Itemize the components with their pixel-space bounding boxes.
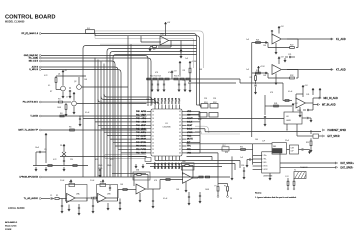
svg-text:LOCAL AUDIO: LOCAL AUDIO xyxy=(8,207,25,210)
svg-text:Notes:: Notes: xyxy=(255,192,262,195)
svg-text:TCLK4: TCLK4 xyxy=(169,98,171,104)
svg-text:MODEL CLX9600: MODEL CLX9600 xyxy=(5,21,25,24)
svg-text:Q1: Q1 xyxy=(58,74,60,76)
svg-text:1uF: 1uF xyxy=(246,69,249,71)
svg-text:RF_(P)_MAIN 1.8: RF_(P)_MAIN 1.8 xyxy=(21,32,38,35)
svg-text:45: 45 xyxy=(179,135,181,137)
svg-text:R1: R1 xyxy=(56,195,58,197)
svg-text:R5: R5 xyxy=(250,77,252,79)
svg-text:21: 21 xyxy=(152,135,154,137)
svg-text:1. Ignore indicates that the p: 1. Ignore indicates that the part is not… xyxy=(255,196,297,199)
svg-text:42: 42 xyxy=(179,146,181,148)
svg-text:1uF: 1uF xyxy=(240,157,243,159)
svg-text:C7: C7 xyxy=(66,97,68,99)
svg-text:P40: P40 xyxy=(136,111,139,113)
svg-text:+: + xyxy=(183,182,184,184)
svg-text:R9: R9 xyxy=(183,70,185,72)
svg-text:TL_AD_AUDIO: TL_AD_AUDIO xyxy=(24,197,39,200)
svg-text:46: 46 xyxy=(179,132,181,134)
svg-text:44: 44 xyxy=(179,139,181,141)
svg-text:P3: P3 xyxy=(230,198,232,200)
svg-text:Q2: Q2 xyxy=(74,81,76,83)
svg-text:22uF: 22uF xyxy=(285,140,289,142)
svg-text:DAT_SPKR-: DAT_SPKR- xyxy=(341,166,354,169)
svg-text:25: 25 xyxy=(152,149,154,151)
svg-text:R52: R52 xyxy=(306,142,309,144)
svg-text:1 IN+: 1 IN+ xyxy=(263,155,267,157)
svg-text:1uF: 1uF xyxy=(262,141,265,143)
svg-text:TCLK3: TCLK3 xyxy=(165,98,167,104)
svg-text:50: 50 xyxy=(179,118,181,120)
svg-text:C41: C41 xyxy=(306,94,309,96)
svg-text:BATT_TL_AUDIO TP: BATT_TL_AUDIO TP xyxy=(18,129,38,132)
svg-text:P41: P41 xyxy=(136,115,139,117)
svg-text:FL2: FL2 xyxy=(223,145,226,147)
svg-text:14: 14 xyxy=(152,111,154,113)
svg-text:MT_IN_AUD: MT_IN_AUD xyxy=(322,104,336,107)
svg-text:+2.5V: +2.5V xyxy=(191,61,197,63)
svg-text:P2: P2 xyxy=(224,186,226,188)
svg-text:LM48: LM48 xyxy=(286,120,291,122)
svg-text:49: 49 xyxy=(179,122,181,124)
svg-text:NC_12(B): NC_12(B) xyxy=(29,58,39,60)
svg-text:2.2uF: 2.2uF xyxy=(90,180,94,182)
svg-text:23: 23 xyxy=(152,142,154,144)
svg-text:R6: R6 xyxy=(69,127,71,129)
svg-text:43: 43 xyxy=(179,142,181,144)
svg-text:R4: R4 xyxy=(60,113,62,115)
svg-text:+: + xyxy=(273,43,274,45)
svg-text:+2.5V: +2.5V xyxy=(260,66,266,68)
svg-text:R3: R3 xyxy=(58,99,60,101)
svg-text:S_MKL B: S_MKL B xyxy=(29,69,38,71)
svg-text:C38: C38 xyxy=(291,148,294,150)
svg-text:J1 J2: J1 J2 xyxy=(285,176,289,178)
svg-text:C44: C44 xyxy=(146,99,149,101)
svg-text:D1: D1 xyxy=(60,145,62,147)
svg-text:18: 18 xyxy=(152,125,154,127)
svg-text:2.2uF: 2.2uF xyxy=(60,180,64,182)
svg-text:FL1: FL1 xyxy=(87,28,90,30)
svg-text:1/17/02: 1/17/02 xyxy=(5,229,11,231)
svg-text:+: + xyxy=(98,201,99,203)
svg-text:RN2: RN2 xyxy=(213,102,217,104)
svg-text:20: 20 xyxy=(152,132,154,134)
svg-text:T1 AUDIO: T1 AUDIO xyxy=(300,166,308,169)
svg-text:MIC 1/2 B: MIC 1/2 B xyxy=(29,61,39,63)
svg-text:DAT_SPKR+: DAT_SPKR+ xyxy=(341,162,355,165)
svg-text:40: 40 xyxy=(179,153,181,155)
svg-text:LPROM_SPC/DATA: LPROM_SPC/DATA xyxy=(19,176,38,179)
svg-text:RN3: RN3 xyxy=(198,119,201,121)
svg-text:TCLK6: TCLK6 xyxy=(176,98,178,104)
svg-text:24: 24 xyxy=(152,146,154,148)
svg-text:22: 22 xyxy=(152,139,154,141)
svg-text:R31: R31 xyxy=(256,70,259,72)
svg-text:17: 17 xyxy=(152,122,154,124)
svg-text:VREF: VREF xyxy=(141,115,147,117)
svg-text:C40: C40 xyxy=(255,139,258,141)
svg-text:P1: P1 xyxy=(215,186,217,188)
svg-text:TCLK5: TCLK5 xyxy=(172,98,174,104)
svg-text:R17: R17 xyxy=(100,182,103,184)
svg-text:48: 48 xyxy=(179,125,181,127)
svg-text:T_DATA: T_DATA xyxy=(30,115,38,118)
svg-text:1uF: 1uF xyxy=(185,58,188,60)
svg-text:C9: C9 xyxy=(183,80,185,82)
svg-text:C21: C21 xyxy=(288,54,291,56)
svg-text:1uF: 1uF xyxy=(291,151,294,153)
svg-text:5 VO2: 5 VO2 xyxy=(263,169,268,171)
svg-text:GND: GND xyxy=(107,165,112,167)
svg-text:PS_OUT B 20 D: PS_OUT B 20 D xyxy=(23,102,39,104)
svg-text:R51: R51 xyxy=(240,146,243,148)
svg-text:0.1uF: 0.1uF xyxy=(85,112,89,114)
svg-text:K7_AUD: K7_AUD xyxy=(336,69,346,72)
svg-text:SDAT: SDAT xyxy=(187,124,193,127)
svg-text:+: + xyxy=(273,73,274,75)
svg-text:U4: U4 xyxy=(286,116,288,118)
svg-text:R7: R7 xyxy=(50,91,52,93)
svg-text:2 IN-: 2 IN- xyxy=(263,159,267,161)
svg-text:R22: R22 xyxy=(290,45,293,47)
svg-text:AVSS: AVSS xyxy=(141,110,147,113)
svg-text:26: 26 xyxy=(152,153,154,155)
svg-text:EXT_SPKR: EXT_SPKR xyxy=(328,136,340,138)
svg-text:R55: R55 xyxy=(225,152,228,154)
svg-text:C5: C5 xyxy=(44,149,46,151)
svg-text:+: + xyxy=(297,107,298,109)
svg-text:C36: C36 xyxy=(241,165,244,167)
svg-text:R11 R12 R13: R11 R12 R13 xyxy=(150,76,161,78)
svg-text:TCLK0: TCLK0 xyxy=(155,98,157,104)
svg-text:R41: R41 xyxy=(274,103,277,105)
svg-text:TCLK1: TCLK1 xyxy=(158,98,160,104)
svg-text:4 VO1: 4 VO1 xyxy=(263,166,268,168)
svg-text:0.1: 0.1 xyxy=(48,85,50,87)
svg-text:1uF: 1uF xyxy=(246,39,249,41)
svg-text:R14 R15: R14 R15 xyxy=(174,76,181,78)
svg-text:47: 47 xyxy=(179,128,181,130)
svg-text:6470-04931-D: 6470-04931-D xyxy=(5,222,18,224)
svg-text:52: 52 xyxy=(179,111,181,113)
svg-text:C1: C1 xyxy=(50,195,52,197)
svg-text:FB1: FB1 xyxy=(273,146,276,148)
svg-text:K1_AUD: K1_AUD xyxy=(336,38,346,41)
svg-text:+: + xyxy=(67,201,68,203)
svg-text:GND: GND xyxy=(98,165,103,167)
svg-text:MUTE: MUTE xyxy=(187,139,193,141)
svg-text:R21: R21 xyxy=(256,40,259,42)
svg-text:41: 41 xyxy=(179,149,181,151)
svg-text:10uF: 10uF xyxy=(35,147,39,149)
svg-text:R2: R2 xyxy=(153,49,155,51)
svg-text:R16: R16 xyxy=(69,182,72,184)
svg-text:R32: R32 xyxy=(290,75,293,77)
svg-text:51: 51 xyxy=(179,115,181,117)
svg-text:Sheet 4 of 23: Sheet 4 of 23 xyxy=(5,225,16,228)
svg-text:+: + xyxy=(137,193,138,195)
svg-text:TCLK7: TCLK7 xyxy=(179,98,181,104)
svg-text:CXD2586: CXD2586 xyxy=(162,127,170,129)
svg-text:LM4890MM: LM4890MM xyxy=(263,176,273,178)
svg-text:16: 16 xyxy=(152,118,154,120)
svg-text:220: 220 xyxy=(70,159,73,161)
svg-text:T1: T1 xyxy=(294,170,296,172)
svg-text:RN1: RN1 xyxy=(204,102,208,104)
svg-text:15: 15 xyxy=(152,115,154,117)
svg-text:+: + xyxy=(161,44,162,46)
svg-text:19: 19 xyxy=(152,128,154,130)
svg-text:0.1uF: 0.1uF xyxy=(288,91,292,93)
svg-text:MIX_IN_AUD: MIX_IN_AUD xyxy=(324,97,339,100)
svg-text:TCLK2: TCLK2 xyxy=(162,98,164,104)
svg-text:HANDSET_SPKR: HANDSET_SPKR xyxy=(328,129,347,132)
svg-text:0.1uF: 0.1uF xyxy=(163,198,167,200)
